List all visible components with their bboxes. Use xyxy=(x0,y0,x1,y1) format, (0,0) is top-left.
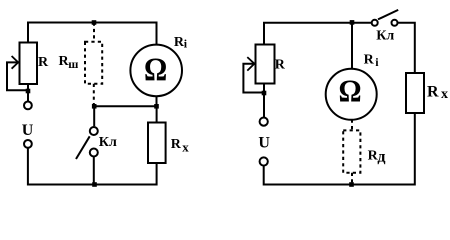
svg-text:x: x xyxy=(182,139,189,154)
svg-text:Ω: Ω xyxy=(338,73,361,109)
svg-text:Ω: Ω xyxy=(144,50,167,87)
svg-text:U: U xyxy=(22,122,34,139)
svg-text:R: R xyxy=(275,58,286,73)
svg-text:R: R xyxy=(427,84,439,101)
svg-text:д: д xyxy=(377,149,385,166)
svg-text:U: U xyxy=(258,134,270,151)
svg-text:Кл: Кл xyxy=(99,135,117,150)
svg-text:Кл: Кл xyxy=(376,29,394,44)
svg-text:x: x xyxy=(441,87,448,102)
svg-text:ш: ш xyxy=(68,57,78,71)
svg-text:R: R xyxy=(38,55,49,70)
svg-text:R: R xyxy=(364,52,375,67)
svg-text:R: R xyxy=(171,137,182,152)
